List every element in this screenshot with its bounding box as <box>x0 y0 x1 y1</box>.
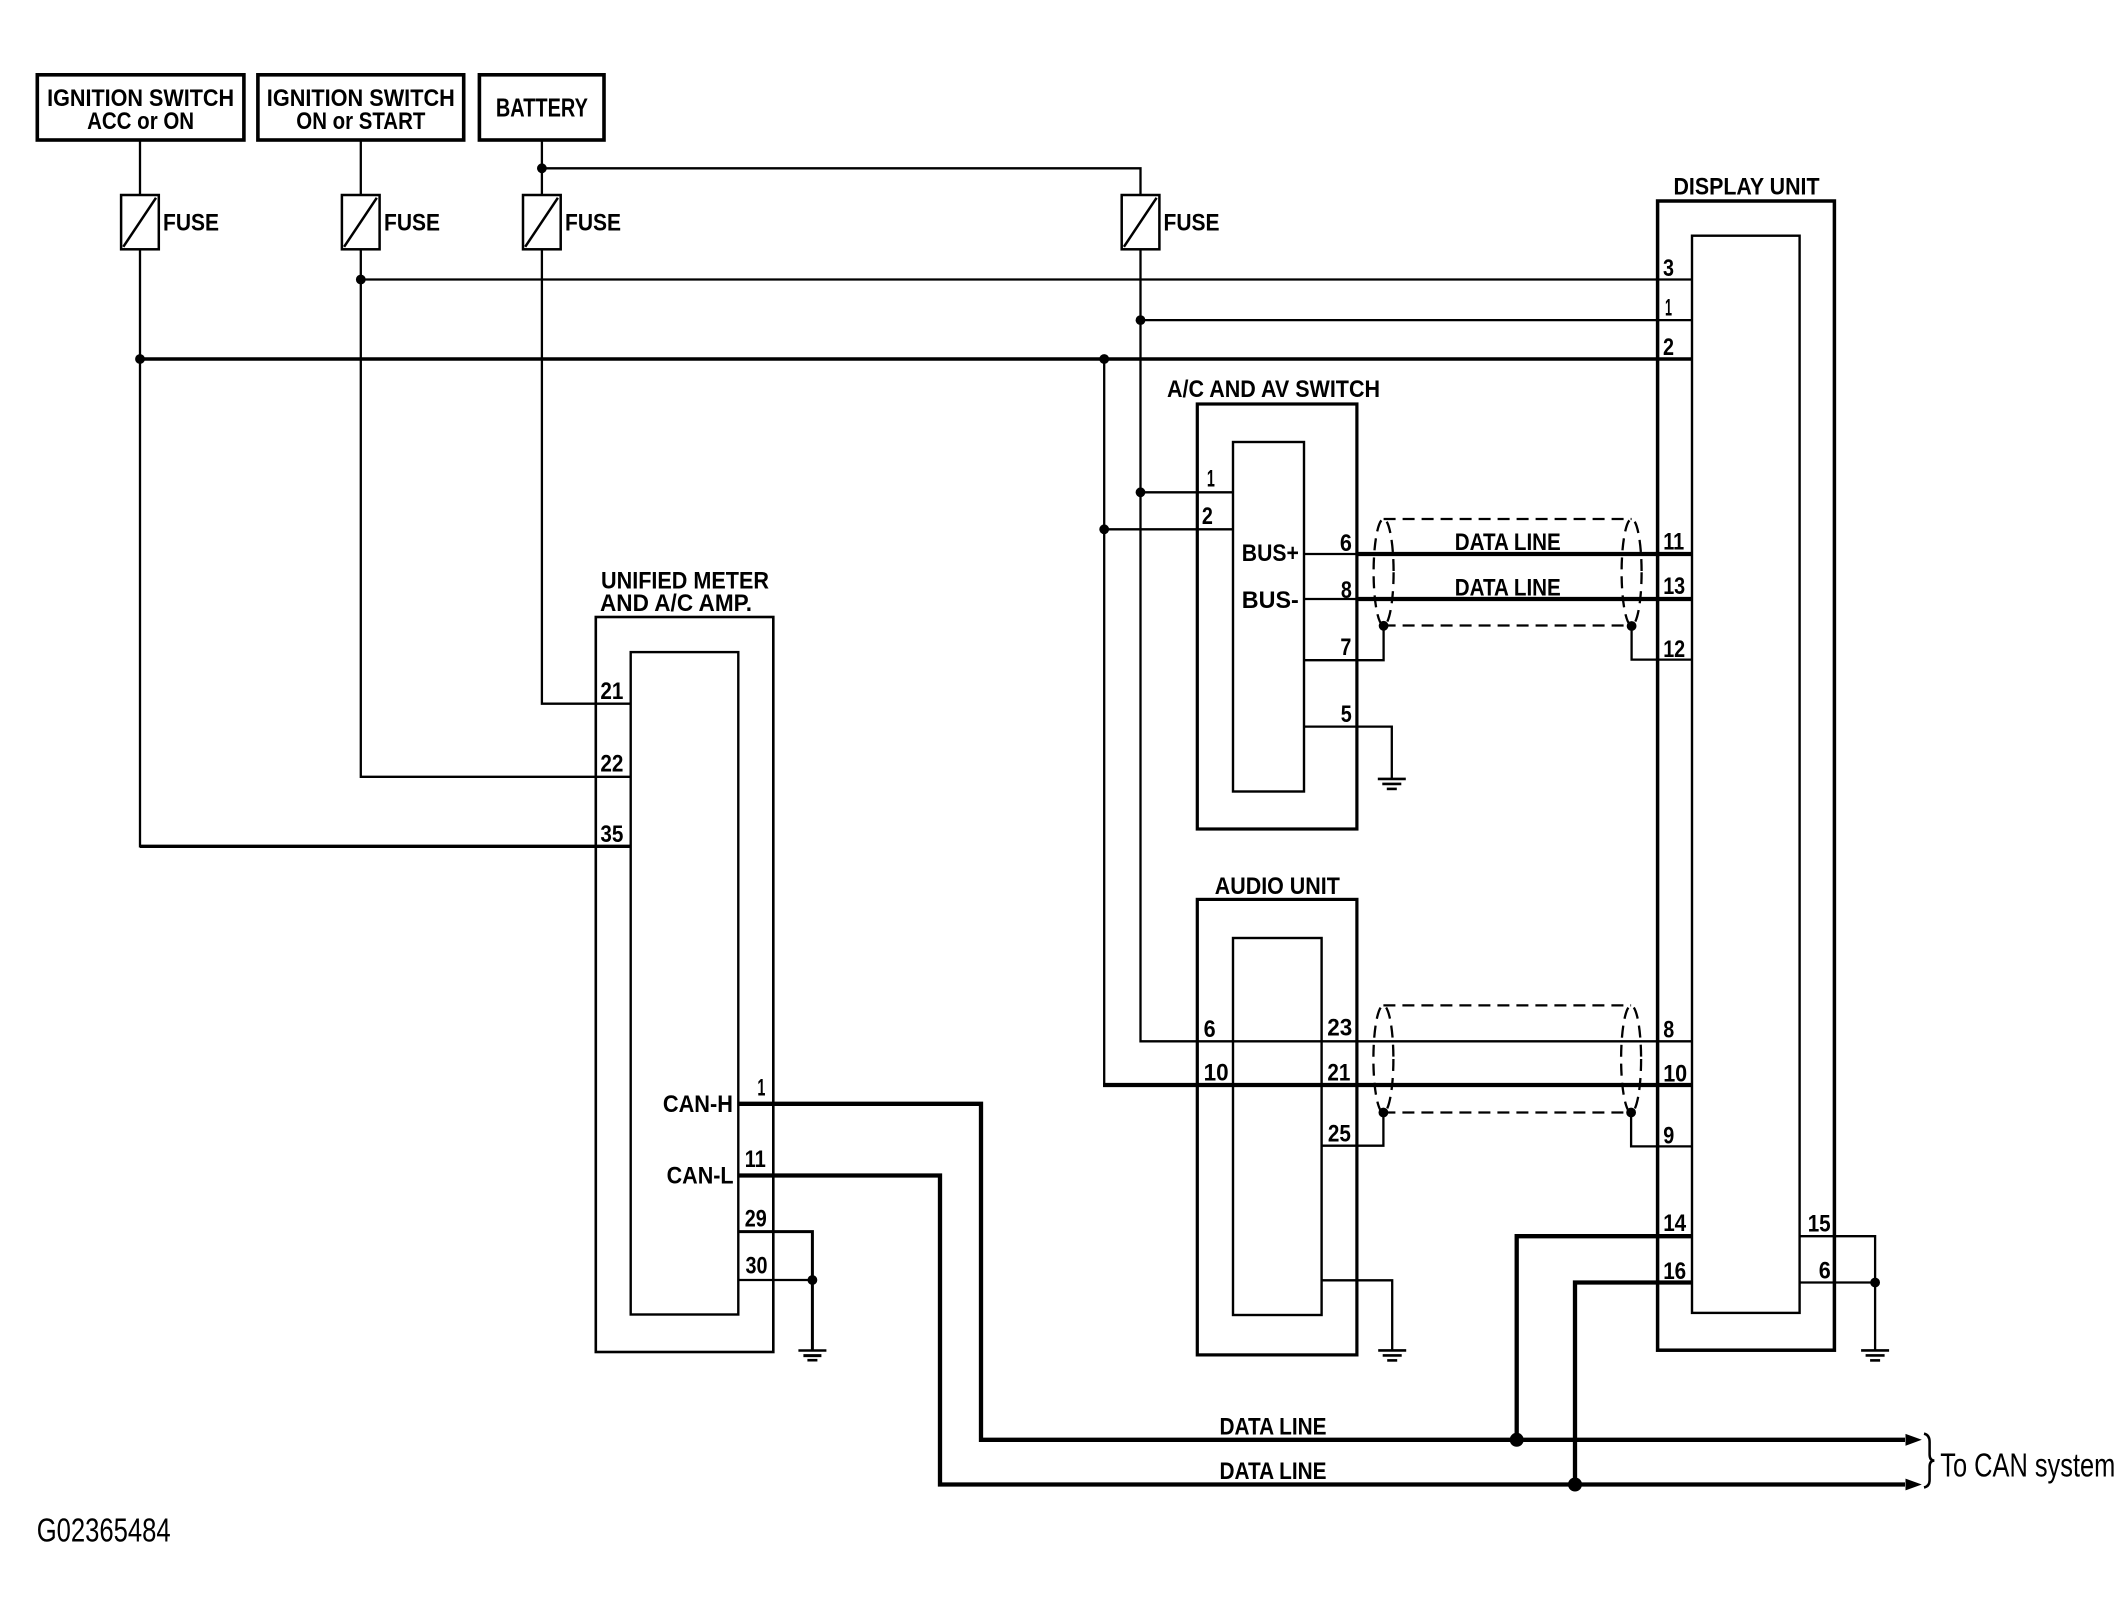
wire battery fuse3 down to pin21 corner <box>542 249 631 703</box>
svg-text:9: 9 <box>1663 1123 1674 1150</box>
shielded cable 2 dashed shield <box>1373 1005 1641 1112</box>
wire pin29 to ground branch <box>738 1232 812 1351</box>
A/C and AV switch outer box <box>1167 376 1380 829</box>
wire AC pin7 shield stub <box>1305 626 1384 660</box>
fuse F2 <box>342 195 440 249</box>
wire fuse1 down to pin35 corner <box>140 249 631 846</box>
svg-text:ON or START: ON or START <box>296 108 425 135</box>
svg-text:AND A/C AMP.: AND A/C AMP. <box>600 590 752 617</box>
svg-text:6: 6 <box>1204 1016 1216 1043</box>
svg-text:AUDIO UNIT: AUDIO UNIT <box>1215 873 1340 900</box>
junction bus to AC branch <box>1099 354 1109 364</box>
wire fuse2 down to pin22 corner <box>361 249 631 777</box>
svg-text:1: 1 <box>757 1075 765 1102</box>
wire AC branch vertical down to audio pin10 corner <box>1103 359 1105 1087</box>
junction pin14 data line <box>1510 1433 1524 1447</box>
wire audio pin10/21 line to display pin10 <box>1103 1083 1692 1087</box>
svg-text:35: 35 <box>600 821 623 848</box>
svg-text:BUS-: BUS- <box>1242 587 1299 614</box>
wire ON/START box to fuse2 <box>360 140 362 195</box>
svg-text:14: 14 <box>1663 1210 1687 1237</box>
wire battery branch to fuse4 <box>542 168 1141 195</box>
svg-text:3: 3 <box>1663 255 1674 282</box>
svg-text:5: 5 <box>1341 701 1352 728</box>
wire main bus line to display pin2 <box>140 357 1692 361</box>
svg-text:21: 21 <box>1327 1060 1350 1087</box>
wire display pin16 feed <box>1575 1283 1692 1485</box>
svg-text:10: 10 <box>1204 1060 1229 1087</box>
fuse F1 <box>121 195 219 249</box>
display unit outer box <box>1658 174 1835 1351</box>
wire audio pin25 shield stub <box>1322 1112 1384 1146</box>
svg-text:FUSE: FUSE <box>1164 210 1220 237</box>
svg-text:CAN-H: CAN-H <box>663 1091 733 1118</box>
svg-text:FUSE: FUSE <box>163 210 219 237</box>
svg-text:11: 11 <box>745 1146 766 1173</box>
junction fuse1 to bus line <box>135 354 145 364</box>
wire data line BUS- to display pin13 <box>1357 597 1692 601</box>
svg-text:BATTERY: BATTERY <box>496 93 588 123</box>
svg-text:22: 22 <box>600 751 623 778</box>
svg-text:21: 21 <box>600 678 623 705</box>
wire CAN-L <box>738 1176 1905 1485</box>
ground unified meter <box>798 1351 826 1361</box>
svg-text:15: 15 <box>1808 1210 1831 1237</box>
arrow CAN-L <box>1906 1479 1922 1491</box>
ignition switch ACC box <box>37 75 244 140</box>
junction fuse2 to pin3 line <box>356 275 366 285</box>
wire AC switch pin2 line <box>1104 528 1233 530</box>
svg-text:DATA LINE: DATA LINE <box>1220 1414 1327 1441</box>
wire audio ground stub <box>1322 1280 1393 1350</box>
fuse F3 <box>523 195 621 249</box>
junction shield1 right <box>1627 621 1637 631</box>
ground display unit <box>1861 1350 1889 1360</box>
svg-text:FUSE: FUSE <box>565 210 621 237</box>
svg-text:10: 10 <box>1663 1061 1687 1088</box>
svg-text:12: 12 <box>1663 636 1685 663</box>
junction fuse4 to pin1 line <box>1136 315 1146 325</box>
svg-text:8: 8 <box>1663 1016 1674 1043</box>
arrow CAN-H <box>1906 1434 1922 1446</box>
A/C switch connector inner box <box>1233 442 1304 792</box>
brace to CAN system <box>1924 1434 1934 1488</box>
battery box <box>479 75 604 140</box>
wire ACC box to fuse1 <box>139 140 141 195</box>
junction shield1 left <box>1379 621 1389 631</box>
wire display pin1 line <box>1141 319 1693 321</box>
unified meter and A/C amp outer box <box>596 568 774 1352</box>
wire AC pin5 to ground <box>1305 727 1392 779</box>
wire fuse4 down to audio pin6 corner <box>1141 249 1693 1041</box>
junction pin29/30 <box>808 1275 818 1285</box>
wire AC switch pin1 line <box>1141 491 1234 493</box>
wire BUS+ stub <box>1305 553 1357 555</box>
svg-text:30: 30 <box>746 1252 768 1279</box>
svg-text:29: 29 <box>745 1205 767 1232</box>
junction battery branch <box>537 163 547 173</box>
ground A/C switch <box>1378 779 1406 789</box>
svg-text:25: 25 <box>1328 1121 1351 1148</box>
svg-text:DISPLAY UNIT: DISPLAY UNIT <box>1674 174 1820 201</box>
wire BUS- stub <box>1305 598 1357 600</box>
wire display pin3 line <box>361 278 1692 280</box>
unified meter connector inner box <box>631 652 739 1314</box>
wire CAN-H <box>738 1104 1905 1440</box>
wire display pin6 right stub <box>1800 1281 1876 1283</box>
svg-text:6: 6 <box>1819 1257 1831 1284</box>
svg-text:1: 1 <box>1665 295 1672 322</box>
svg-text:BUS+: BUS+ <box>1242 540 1299 567</box>
ignition switch ON/START box <box>258 75 464 140</box>
audio unit outer box <box>1197 873 1357 1355</box>
junction AC branch to AC pin2 line <box>1099 524 1109 534</box>
junction shield2 right <box>1626 1108 1636 1118</box>
svg-text:DATA LINE: DATA LINE <box>1220 1458 1327 1485</box>
wire pin30 <box>738 1279 812 1281</box>
display connector inner box <box>1692 236 1800 1313</box>
svg-text:DATA LINE: DATA LINE <box>1455 575 1561 602</box>
svg-text:1: 1 <box>1207 466 1215 493</box>
junction pin16 data line <box>1568 1478 1582 1492</box>
svg-text:7: 7 <box>1340 634 1351 661</box>
svg-text:23: 23 <box>1327 1015 1352 1042</box>
svg-text:G02365484: G02365484 <box>37 1511 171 1548</box>
ground audio unit <box>1378 1350 1406 1360</box>
svg-text:A/C AND AV SWITCH: A/C AND AV SWITCH <box>1167 376 1380 403</box>
svg-text:11: 11 <box>1663 529 1684 556</box>
junction shield2 left <box>1379 1108 1389 1118</box>
wire display pin9 shield stub <box>1631 1113 1692 1147</box>
svg-text:13: 13 <box>1663 573 1685 600</box>
svg-text:ACC or ON: ACC or ON <box>87 108 194 135</box>
svg-text:DATA LINE: DATA LINE <box>1455 529 1561 556</box>
svg-text:CAN-L: CAN-L <box>667 1163 734 1190</box>
svg-text:2: 2 <box>1202 503 1213 530</box>
svg-text:To CAN system: To CAN system <box>1940 1446 2115 1483</box>
shielded cable 1 dashed shield <box>1374 519 1642 626</box>
svg-text:FUSE: FUSE <box>384 210 440 237</box>
svg-text:2: 2 <box>1663 334 1674 361</box>
audio connector inner box <box>1233 938 1322 1315</box>
junction display pin6/15 <box>1870 1278 1880 1288</box>
wire display pin14 feed <box>1517 1236 1692 1440</box>
junction fuse4 vertical to AC pin1 line <box>1136 487 1146 497</box>
fuse F4 <box>1122 195 1220 249</box>
wire pin35 thick segment <box>140 845 631 848</box>
wire display pin15 to ground vertical <box>1800 1236 1876 1350</box>
wire data line BUS+ to display pin11 <box>1357 552 1692 556</box>
wire display pin12 shield stub <box>1632 626 1692 660</box>
wire battery to fuse3 <box>541 140 543 195</box>
